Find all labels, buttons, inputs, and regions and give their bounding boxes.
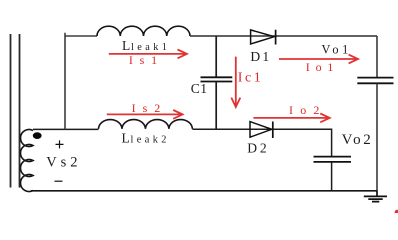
svg-text:Is2: Is2 xyxy=(132,101,168,115)
ground xyxy=(364,191,387,202)
diode D2 bar xyxy=(272,122,274,139)
diode D1 bar xyxy=(275,30,277,45)
label plus sign xyxy=(56,140,64,148)
wire: rail2 through D2 to output corner xyxy=(251,129,332,156)
polarity dot xyxy=(33,132,42,139)
svg-text:D2: D2 xyxy=(247,141,269,156)
svg-text:Vo1: Vo1 xyxy=(322,42,352,56)
diode D2 triangle xyxy=(250,122,272,138)
svg-text:C1: C1 xyxy=(191,81,208,96)
current arrow Ic1 xyxy=(231,57,240,107)
stray red mark bottom-right xyxy=(395,210,398,215)
wire: top-left corner and left drop xyxy=(65,33,97,129)
secondary winding Vs2 coil xyxy=(21,130,34,192)
transformer core line right xyxy=(19,34,21,188)
diode D1 triangle xyxy=(251,30,275,44)
capacitor Co1 plates xyxy=(357,78,393,84)
wire: secondary top lead / rail2 left segment xyxy=(33,128,99,130)
capacitor Co2 plates xyxy=(314,157,352,162)
wire: rail2 middle segment (Lleak2 to D2) xyxy=(192,128,250,130)
wire: right branch top xyxy=(376,36,378,77)
svg-text:Io1: Io1 xyxy=(306,60,339,74)
inductor Lleak1 xyxy=(97,26,190,36)
wire: bottom rail xyxy=(31,190,377,192)
svg-text:Is1: Is1 xyxy=(129,53,164,67)
current arrow Is2 xyxy=(107,110,183,119)
wire: top rail from Lleak1 to top-right corner xyxy=(190,35,377,37)
transformer core line left xyxy=(10,34,12,188)
svg-text:Vs2: Vs2 xyxy=(46,155,81,171)
current arrow Is1 xyxy=(109,50,187,59)
capacitor C1 top wire xyxy=(215,36,217,77)
current arrow Io2 xyxy=(253,114,329,123)
wire: right branch bottom xyxy=(376,83,378,191)
capacitor C1 plates xyxy=(201,77,233,81)
svg-text:Vo2: Vo2 xyxy=(342,132,374,148)
wire: cap Co2 bottom lead xyxy=(331,162,333,191)
svg-text:Io2: Io2 xyxy=(289,103,327,117)
svg-text:Ic1: Ic1 xyxy=(238,70,264,85)
label minus sign xyxy=(55,180,63,182)
inductor Lleak2 xyxy=(99,120,193,129)
capacitor C1 bottom wire xyxy=(215,82,217,130)
current arrow Io1 xyxy=(279,55,358,64)
svg-text:Lleak1: Lleak1 xyxy=(122,38,170,53)
svg-text:Lleak2: Lleak2 xyxy=(122,131,170,146)
svg-text:D1: D1 xyxy=(250,49,271,64)
